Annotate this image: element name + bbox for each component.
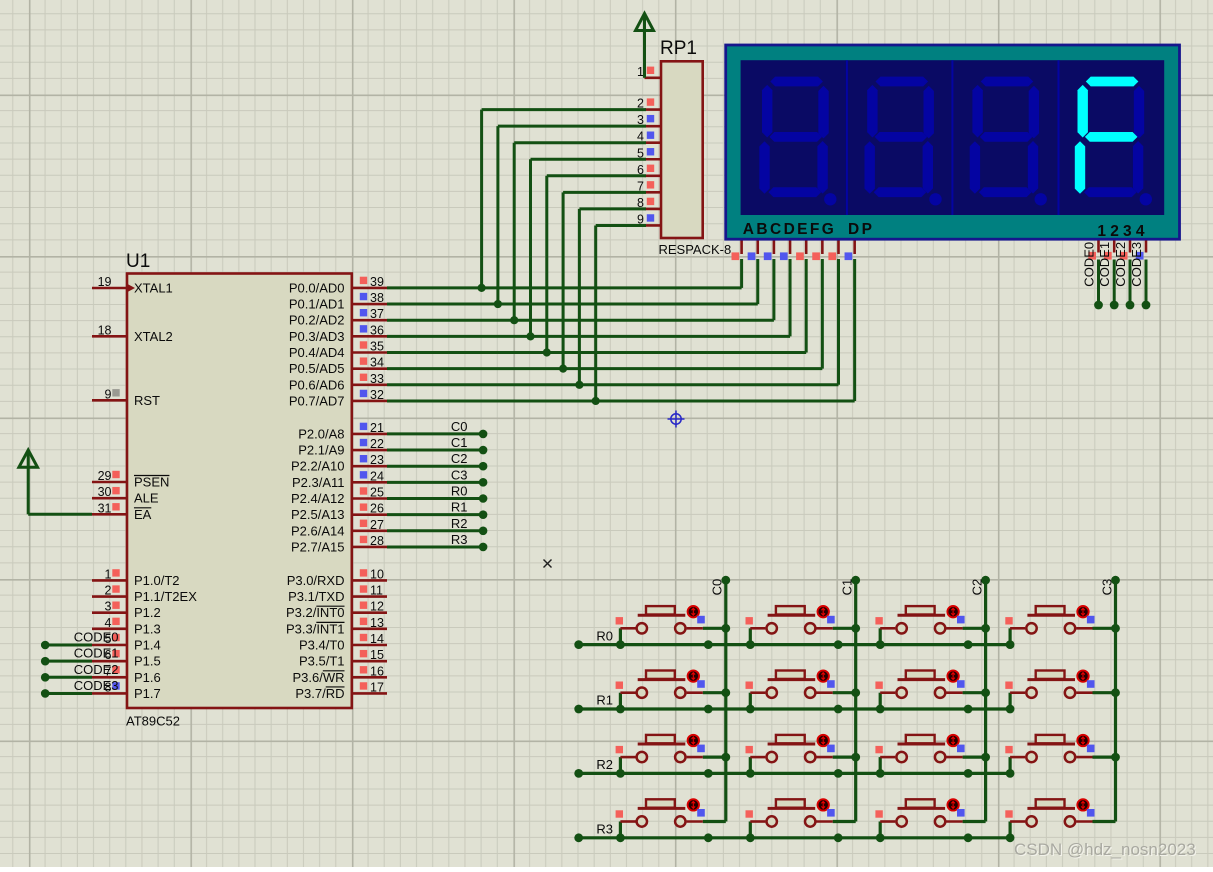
wire EA to power xyxy=(28,513,92,516)
svg-text:19: 19 xyxy=(98,275,112,289)
junction P0.7/riser xyxy=(592,397,600,405)
watermark CSDN xyxy=(1014,840,1197,860)
svg-text:P0.4/AD4: P0.4/AD4 xyxy=(289,345,345,360)
svg-text:29: 29 xyxy=(98,469,112,483)
display pin stub 0 xyxy=(732,241,742,261)
svg-text:P3.1/TXD: P3.1/TXD xyxy=(288,589,344,604)
push button S13 (row R3, col C0) xyxy=(616,799,726,842)
wire P1.4 to net CODE0 xyxy=(41,641,92,650)
wire keypad column C1 xyxy=(851,576,860,822)
wire P0.5 horizontal run xyxy=(387,367,822,370)
svg-text:CODE0: CODE0 xyxy=(74,630,119,645)
svg-text:21: 21 xyxy=(370,421,384,435)
svg-text:AT89C52: AT89C52 xyxy=(126,714,180,729)
wire P0.1 riser to RP1 pin 3 xyxy=(498,126,646,304)
svg-text:15: 15 xyxy=(370,648,384,662)
wire P0.6 riser to RP1 pin 8 xyxy=(579,209,646,385)
wire P2.0 to net C0 xyxy=(387,430,487,439)
U1 pin 37 (P0.2/AD2) xyxy=(289,307,387,328)
svg-text:36: 36 xyxy=(370,323,384,337)
wire display segment column 7 xyxy=(853,259,856,401)
origin marker (blue crosshair) xyxy=(668,411,685,428)
svg-text:1: 1 xyxy=(637,65,644,79)
U1 pin 3 (P1.2) xyxy=(92,600,161,621)
U1 pin 25 (P2.4/A12) xyxy=(291,486,387,507)
svg-text:26: 26 xyxy=(370,502,384,516)
node R3 label xyxy=(451,532,468,547)
U1 XTAL1 clock input marker xyxy=(127,284,135,293)
wire keypad column C3 xyxy=(1111,576,1120,822)
svg-text:R1: R1 xyxy=(596,693,613,708)
junction column C2 / button row 2 xyxy=(981,753,990,762)
wire keypad column C2 xyxy=(981,576,990,822)
wire P0.1 horizontal run xyxy=(387,303,758,306)
node CODE1 label xyxy=(74,646,119,661)
node R2 label xyxy=(596,757,613,772)
node C2 label (rotated) xyxy=(969,579,984,596)
U1 pin 1 (P1.0/T2) xyxy=(92,567,180,588)
svg-text:P0.6/AD6: P0.6/AD6 xyxy=(289,377,345,392)
push button S9 (row R2, col C0) xyxy=(616,735,726,778)
svg-text:P3.5/T1: P3.5/T1 xyxy=(299,654,345,669)
node CODE2 label xyxy=(74,662,119,677)
wire P0.3 riser to RP1 pin 5 xyxy=(531,159,647,336)
svg-text:P2.2/A10: P2.2/A10 xyxy=(291,459,345,474)
svg-text:CSDN @hdz_nosn2023: CSDN @hdz_nosn2023 xyxy=(1014,840,1196,859)
junction row R2 segment 2 xyxy=(964,769,973,778)
junction column C0 / button row 0 xyxy=(721,624,730,633)
wire display segment column 4 xyxy=(805,259,808,353)
RP1 pin 7 xyxy=(637,179,661,193)
svg-text:14: 14 xyxy=(370,632,384,646)
junction P0.5/riser xyxy=(559,365,567,373)
node R0 label xyxy=(596,628,613,643)
junction column C2 / button row 1 xyxy=(981,688,990,697)
U1 pin 33 (P0.6/AD6) xyxy=(289,372,387,393)
svg-text:P1.1/T2EX: P1.1/T2EX xyxy=(134,589,197,604)
resistor pack RP1 body (RESPACK-8) xyxy=(661,61,703,238)
U1 pin 27 (P2.6/A14) xyxy=(291,518,387,539)
U1 pin 39 (P0.0/AD0) xyxy=(289,275,387,296)
svg-text:P2.1/A9: P2.1/A9 xyxy=(298,443,344,458)
junction column C1 / button row 0 xyxy=(851,624,860,633)
node C3 label xyxy=(451,467,468,482)
RP1 pin 5 xyxy=(637,146,661,160)
junction row R3 segment 1 xyxy=(834,833,843,842)
svg-text:RESPACK-8: RESPACK-8 xyxy=(659,242,732,257)
junction column C1 / button row 2 xyxy=(851,753,860,762)
svg-text:27: 27 xyxy=(370,518,384,532)
svg-text:25: 25 xyxy=(370,486,384,500)
svg-text:P0.1/AD1: P0.1/AD1 xyxy=(289,297,345,312)
svg-text:CODE0: CODE0 xyxy=(1081,242,1096,287)
junction column C3 / button row 1 xyxy=(1111,688,1120,697)
svg-text:CODE2: CODE2 xyxy=(74,662,119,677)
svg-text:16: 16 xyxy=(370,664,384,678)
U1 pin 19 (XTAL1) xyxy=(92,275,173,296)
push button S2 (row R0, col C1) xyxy=(746,606,856,649)
svg-text:CODE3: CODE3 xyxy=(74,678,119,693)
svg-text:28: 28 xyxy=(370,534,384,548)
svg-text:34: 34 xyxy=(370,356,384,370)
svg-text:C1: C1 xyxy=(840,579,855,596)
svg-text:P2.7/A15: P2.7/A15 xyxy=(291,539,345,554)
U1 pin 17 (P3.7) xyxy=(295,680,387,701)
svg-text:XTAL1: XTAL1 xyxy=(134,281,173,296)
RP1 pin 4 xyxy=(637,130,661,144)
power symbol (VCC arrow) at RP1 pin 1 xyxy=(636,14,654,78)
junction row R1 segment 0 xyxy=(704,705,713,714)
wire P0.7 horizontal run xyxy=(387,399,855,402)
op-amp U1 body (AT89C52 chip outline) xyxy=(127,274,352,709)
push button S5 (row R1, col C0) xyxy=(616,670,726,713)
node R0 label xyxy=(451,484,468,499)
U1 pin 38 (P0.1/AD1) xyxy=(289,291,387,312)
U1 pin 18 (XTAL2) xyxy=(92,323,173,344)
push button S10 (row R2, col C1) xyxy=(746,735,856,778)
wire P0.2 riser to RP1 pin 4 xyxy=(514,143,646,321)
U1 pin 32 (P0.7/AD7) xyxy=(289,388,387,409)
U1 pin 36 (P0.3/AD3) xyxy=(289,323,387,344)
wire display segment column 2 xyxy=(772,259,775,320)
junction column C0 / button row 1 xyxy=(721,688,730,697)
wire P0.4 horizontal run xyxy=(387,351,806,354)
junction row R1 segment 2 xyxy=(964,705,973,714)
svg-text:32: 32 xyxy=(370,388,384,402)
svg-text:30: 30 xyxy=(98,485,112,499)
junction P0.3/riser xyxy=(526,332,534,340)
svg-text:P1.5: P1.5 xyxy=(134,654,161,669)
node CODE0 label xyxy=(74,630,119,645)
junction column C0 / button row 2 xyxy=(721,753,730,762)
junction column C2 / button row 0 xyxy=(981,624,990,633)
display digit 3 segments (unlit) xyxy=(970,77,1047,206)
junction P0.1/riser xyxy=(494,300,502,308)
U1 pin 2 (P1.1/T2EX) xyxy=(92,584,197,605)
display pin stub 4 xyxy=(796,241,806,261)
wire display digit pin 4 to net CODE3 xyxy=(1136,241,1151,310)
junction P0.6/riser xyxy=(575,381,583,389)
U1 pin 9 (RST) xyxy=(92,387,160,408)
U1 pin 16 (P3.6) xyxy=(292,664,387,685)
svg-text:23: 23 xyxy=(370,453,384,467)
junction row R3 segment 2 xyxy=(964,833,973,842)
wire P2.4 to net R0 xyxy=(387,494,487,503)
svg-text:39: 39 xyxy=(370,275,384,289)
U1 pin 11 (P3.1) xyxy=(288,584,387,605)
svg-text:P3.3/INT1: P3.3/INT1 xyxy=(286,621,345,636)
wire P0.0 horizontal run xyxy=(387,286,742,289)
push button S4 (row R0, col C3) xyxy=(1005,606,1115,649)
wire P2.5 to net R1 xyxy=(387,510,487,519)
svg-text:4: 4 xyxy=(105,616,112,630)
svg-text:R0: R0 xyxy=(596,628,613,643)
svg-text:1234: 1234 xyxy=(1097,223,1148,240)
display digit 4 segments (showing F) xyxy=(1075,77,1152,206)
display U2 (4-digit 7-segment) outer frame xyxy=(726,45,1180,239)
junction P0.0/riser xyxy=(478,284,486,292)
svg-text:22: 22 xyxy=(370,437,384,451)
push button S15 (row R3, col C2) xyxy=(875,799,985,842)
display pin stub 2 xyxy=(764,241,774,261)
node R1 label xyxy=(451,500,468,515)
svg-text:P1.0/T2: P1.0/T2 xyxy=(134,573,180,588)
junction row R0 segment 0 xyxy=(704,640,713,649)
display pin stub 6 xyxy=(828,241,838,261)
svg-text:C1: C1 xyxy=(451,435,468,450)
wire keypad column C0 xyxy=(721,576,730,822)
wire P0.6 horizontal run xyxy=(387,383,839,386)
svg-text:C2: C2 xyxy=(451,451,468,466)
display digit 1 segments (unlit) xyxy=(759,77,836,206)
svg-text:P0.2/AD2: P0.2/AD2 xyxy=(289,313,345,328)
junction column C3 / button row 2 xyxy=(1111,753,1120,762)
wire keypad row R2 xyxy=(574,769,1010,778)
wire P0.5 riser to RP1 pin 7 xyxy=(563,192,646,368)
push button S6 (row R1, col C1) xyxy=(746,670,856,713)
svg-text:RST: RST xyxy=(134,393,160,408)
svg-text:CODE1: CODE1 xyxy=(74,646,119,661)
node CODE3 label (rotated) xyxy=(1129,242,1144,287)
svg-text:R0: R0 xyxy=(451,484,468,499)
svg-text:1: 1 xyxy=(105,567,112,581)
node CODE1 label (rotated) xyxy=(1097,242,1112,287)
display digit separators xyxy=(847,60,1059,215)
svg-text:10: 10 xyxy=(370,567,384,581)
wire P2.3 to net C3 xyxy=(387,478,487,487)
U1 pin 28 (P2.7/A15) xyxy=(291,534,387,555)
wire P1.6 to net CODE2 xyxy=(41,673,92,682)
svg-text:R3: R3 xyxy=(596,822,613,837)
svg-text:38: 38 xyxy=(370,291,384,305)
svg-text:13: 13 xyxy=(370,616,384,630)
svg-text:CODE3: CODE3 xyxy=(1129,242,1144,287)
U1 pin 6 (P1.5) xyxy=(92,648,161,669)
wire display digit pin 1 to net CODE0 xyxy=(1088,241,1103,310)
svg-text:EA: EA xyxy=(134,507,152,522)
svg-text:C0: C0 xyxy=(710,579,725,596)
node CODE2 label (rotated) xyxy=(1113,242,1128,287)
wire display segment column 3 xyxy=(789,259,792,336)
wire P2.7 to net R3 xyxy=(387,543,487,552)
wire display segment column 6 xyxy=(837,259,840,385)
junction column C3 / button row 0 xyxy=(1111,624,1120,633)
U1 pin 5 (P1.4) xyxy=(92,632,161,653)
svg-text:2: 2 xyxy=(105,584,112,598)
svg-text:U1: U1 xyxy=(126,251,150,272)
wire P0.3 horizontal run xyxy=(387,335,790,338)
svg-text:P3.4/T0: P3.4/T0 xyxy=(299,638,345,653)
U1 pin 24 (P2.3/A11) xyxy=(292,469,387,490)
U1 pin 15 (P3.5) xyxy=(299,648,387,669)
wire P0.7 riser to RP1 pin 9 xyxy=(596,225,646,401)
power symbol (VCC arrow) at EA xyxy=(19,450,38,514)
svg-text:P0.3/AD3: P0.3/AD3 xyxy=(289,329,345,344)
display pin stub 7 xyxy=(845,241,855,261)
node R3 label xyxy=(596,822,613,837)
U1 pin 35 (P0.4/AD4) xyxy=(289,340,387,361)
svg-text:PSEN: PSEN xyxy=(134,475,169,490)
push button S14 (row R3, col C1) xyxy=(746,799,856,842)
U1 pin 29 (PSEN) xyxy=(92,469,169,490)
label U1 xyxy=(126,251,150,272)
svg-text:P0.7/AD7: P0.7/AD7 xyxy=(289,393,345,408)
svg-text:37: 37 xyxy=(370,307,384,321)
display pin stub 5 xyxy=(812,241,822,261)
svg-text:3: 3 xyxy=(105,600,112,614)
junction row R2 segment 1 xyxy=(834,769,843,778)
svg-text:C3: C3 xyxy=(451,467,468,482)
svg-text:P1.6: P1.6 xyxy=(134,670,161,685)
svg-text:12: 12 xyxy=(370,600,384,614)
svg-text:11: 11 xyxy=(370,584,383,598)
U1 pin 7 (P1.6) xyxy=(92,664,161,685)
U1 pin 21 (P2.0/A8) xyxy=(298,421,387,442)
display digit 2 segments (unlit) xyxy=(865,77,942,206)
svg-text:R2: R2 xyxy=(596,757,613,772)
U1 pin 30 (ALE) xyxy=(92,485,159,506)
svg-text:P2.4/A12: P2.4/A12 xyxy=(291,491,345,506)
wire display segment column 1 xyxy=(756,259,759,304)
RP1 pin 3 xyxy=(637,113,661,127)
label RESPACK-8 xyxy=(659,242,732,257)
label AT89C52 xyxy=(126,714,180,729)
node R2 label xyxy=(451,516,468,531)
push button S8 (row R1, col C3) xyxy=(1005,670,1115,713)
wire P1.7 to net CODE3 xyxy=(41,689,92,698)
push button S1 (row R0, col C0) xyxy=(616,606,726,649)
node C1 label xyxy=(451,435,468,450)
svg-text:P2.3/A11: P2.3/A11 xyxy=(292,475,345,490)
U1 pin 34 (P0.5/AD5) xyxy=(289,356,387,377)
U1 pin 23 (P2.2/A10) xyxy=(291,453,387,474)
svg-text:CODE1: CODE1 xyxy=(1097,242,1112,287)
push button S7 (row R1, col C2) xyxy=(875,670,985,713)
node C1 label (rotated) xyxy=(840,579,855,596)
node CODE3 label xyxy=(74,678,119,693)
svg-text:RP1: RP1 xyxy=(660,38,697,59)
U1 pin 12 (P3.2) xyxy=(286,600,387,621)
label RP1 xyxy=(660,38,697,59)
wire P0.0 riser to RP1 pin 2 xyxy=(482,110,646,288)
svg-text:P2.6/A14: P2.6/A14 xyxy=(291,523,345,538)
svg-text:35: 35 xyxy=(370,340,384,354)
svg-text:17: 17 xyxy=(370,680,384,694)
node C3 label (rotated) xyxy=(1099,579,1114,596)
svg-text:P0.0/AD0: P0.0/AD0 xyxy=(289,280,345,295)
svg-text:9: 9 xyxy=(105,387,112,401)
U1 pin 31 (EA) xyxy=(92,501,152,522)
display pin stub 1 xyxy=(748,241,758,261)
svg-text:C0: C0 xyxy=(451,419,468,434)
node CODE0 label (rotated) xyxy=(1081,242,1096,287)
wire P2.2 to net C2 xyxy=(387,462,487,471)
wire display segment column 0 xyxy=(740,259,743,288)
wire keypad row R3 xyxy=(574,833,1010,842)
svg-text:P0.5/AD5: P0.5/AD5 xyxy=(289,361,345,376)
svg-text:P2.5/A13: P2.5/A13 xyxy=(291,507,345,522)
svg-text:31: 31 xyxy=(98,501,112,515)
svg-text:P3.6/WR: P3.6/WR xyxy=(292,670,344,685)
svg-text:P1.7: P1.7 xyxy=(134,686,161,701)
U1 pin 13 (P3.3) xyxy=(286,616,387,637)
U1 pin 10 (P3.0) xyxy=(287,567,387,588)
svg-text:ALE: ALE xyxy=(134,491,159,506)
node C0 label xyxy=(451,419,468,434)
wire P1.5 to net CODE1 xyxy=(41,657,92,666)
display segment labels ABCDEFG DP xyxy=(743,221,875,238)
junction row R1 segment 1 xyxy=(834,705,843,714)
wire display digit pin 2 to net CODE1 xyxy=(1104,241,1119,310)
junction P0.2/riser xyxy=(510,316,518,324)
display digit labels 1234 xyxy=(1097,223,1148,240)
junction row R0 segment 2 xyxy=(964,640,973,649)
wire P0.4 riser to RP1 pin 6 xyxy=(547,176,646,353)
svg-text:R2: R2 xyxy=(451,516,468,531)
display screen area xyxy=(741,60,1165,215)
svg-text:P3.2/INT0: P3.2/INT0 xyxy=(286,605,345,620)
marker x xyxy=(544,560,552,568)
junction row R2 segment 0 xyxy=(704,769,713,778)
RP1 pin 6 xyxy=(637,163,661,177)
wire keypad row R1 xyxy=(574,705,1010,714)
push button S16 (row R3, col C3) xyxy=(1005,799,1115,842)
svg-text:C2: C2 xyxy=(969,579,984,596)
U1 pin 26 (P2.5/A13) xyxy=(291,502,387,523)
junction column C1 / button row 1 xyxy=(851,688,860,697)
svg-text:C3: C3 xyxy=(1099,579,1114,596)
wire display digit pin 3 to net CODE2 xyxy=(1120,241,1135,310)
svg-text:P1.2: P1.2 xyxy=(134,605,161,620)
svg-text:XTAL2: XTAL2 xyxy=(134,329,173,344)
push button S3 (row R0, col C2) xyxy=(875,606,985,649)
svg-text:CODE2: CODE2 xyxy=(1113,242,1128,287)
wire P0.2 horizontal run xyxy=(387,319,774,322)
U1 pin 8 (P1.7) xyxy=(92,680,161,701)
svg-text:P2.0/A8: P2.0/A8 xyxy=(298,426,344,441)
svg-text:P1.4: P1.4 xyxy=(134,638,161,653)
junction row R0 segment 1 xyxy=(834,640,843,649)
svg-text:P1.3: P1.3 xyxy=(134,621,161,636)
push button S11 (row R2, col C2) xyxy=(875,735,985,778)
svg-text:P3.7/RD: P3.7/RD xyxy=(295,686,344,701)
wire keypad row R0 xyxy=(574,640,1010,649)
RP1 pin 9 xyxy=(637,212,661,226)
svg-text:R1: R1 xyxy=(451,500,468,515)
junction row R3 segment 0 xyxy=(704,833,713,842)
svg-text:18: 18 xyxy=(98,323,112,337)
svg-text:ABCDEFG: ABCDEFG xyxy=(743,221,836,238)
svg-text:P3.0/RXD: P3.0/RXD xyxy=(287,573,345,588)
U1 pin 4 (P1.3) xyxy=(92,616,161,637)
svg-text:33: 33 xyxy=(370,372,384,386)
push button S12 (row R2, col C3) xyxy=(1005,735,1115,778)
node C0 label (rotated) xyxy=(710,579,725,596)
U1 pin 14 (P3.4) xyxy=(299,632,387,653)
junction P0.4/riser xyxy=(543,348,551,356)
svg-text:R3: R3 xyxy=(451,532,468,547)
display pin stub 3 xyxy=(780,241,790,261)
node C2 label xyxy=(451,451,468,466)
wire P2.6 to net R2 xyxy=(387,527,487,536)
RP1 pin 1 xyxy=(637,65,661,79)
svg-text:24: 24 xyxy=(370,469,384,483)
U1 pin 22 (P2.1/A9) xyxy=(298,437,387,458)
RP1 pin 2 xyxy=(637,97,661,111)
svg-text:DP: DP xyxy=(848,221,874,238)
RP1 pin 8 xyxy=(637,196,661,210)
wire P2.1 to net C1 xyxy=(387,446,487,455)
